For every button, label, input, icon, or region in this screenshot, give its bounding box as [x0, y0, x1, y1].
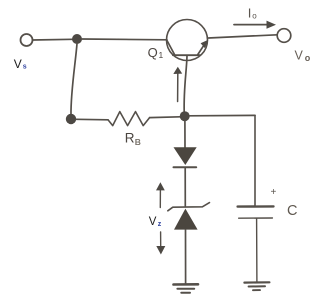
svg-text:o: o — [305, 53, 311, 63]
wire transistor base down to node B — [184, 56, 187, 112]
ground 1 — [174, 283, 199, 286]
wire node A down to node C — [71, 44, 77, 116]
svg-text:Q: Q — [148, 45, 158, 60]
Vz up arrow — [159, 190, 161, 208]
node A junction dot — [72, 34, 82, 44]
svg-text:V: V — [14, 57, 22, 71]
input terminal Vs — [21, 34, 33, 46]
ground 2 — [244, 281, 269, 284]
wire node C to resistor RB — [76, 118, 108, 121]
capacitor C bottom plate — [239, 217, 273, 219]
wire resistor RB to node B — [150, 116, 180, 119]
capacitor C top plate — [238, 205, 274, 208]
wire diode D1 to zener D2 — [184, 169, 186, 207]
diode D1 cathode bar — [174, 166, 197, 168]
wire zener D2 to ground — [185, 230, 187, 283]
wire capacitor to ground — [256, 219, 258, 281]
transistor Q1 base bar — [173, 54, 200, 56]
svg-text:z: z — [158, 221, 162, 228]
transistor Q1 emitter arrowhead — [201, 40, 209, 48]
zener D2 cathode bar with bent ends — [168, 203, 210, 211]
diode D1 triangle — [174, 147, 197, 165]
wire node B down to diode D1 — [184, 121, 186, 148]
transistor Q1 emitter lead — [198, 43, 206, 55]
current Io arrow — [234, 24, 268, 26]
zener D2 triangle — [174, 209, 198, 230]
Vz down arrow — [160, 232, 162, 246]
svg-text:+: + — [271, 187, 277, 198]
svg-text:o: o — [252, 12, 257, 21]
svg-text:s: s — [23, 64, 27, 71]
transistor Q1 circle — [167, 20, 208, 61]
node C junction dot — [66, 114, 76, 124]
node B junction dot — [180, 111, 190, 121]
svg-text:V: V — [149, 216, 157, 228]
svg-text:C: C — [287, 203, 297, 219]
wire input terminal to node A — [33, 38, 73, 41]
svg-text:1: 1 — [159, 50, 164, 60]
resistor RB zigzag — [108, 112, 150, 126]
output terminal Vo — [277, 29, 291, 43]
wire emitter to output terminal — [209, 35, 278, 38]
svg-text:B: B — [135, 137, 141, 147]
wire node A to transistor collector — [82, 38, 167, 41]
svg-text:I: I — [248, 6, 252, 21]
base current arrow (up) — [177, 74, 179, 102]
wire down to capacitor — [254, 115, 256, 205]
svg-text:V: V — [295, 49, 304, 63]
wire node B to capacitor branch corner — [190, 114, 255, 116]
svg-text:R: R — [125, 131, 135, 146]
transistor Q1 collector lead — [167, 41, 175, 55]
